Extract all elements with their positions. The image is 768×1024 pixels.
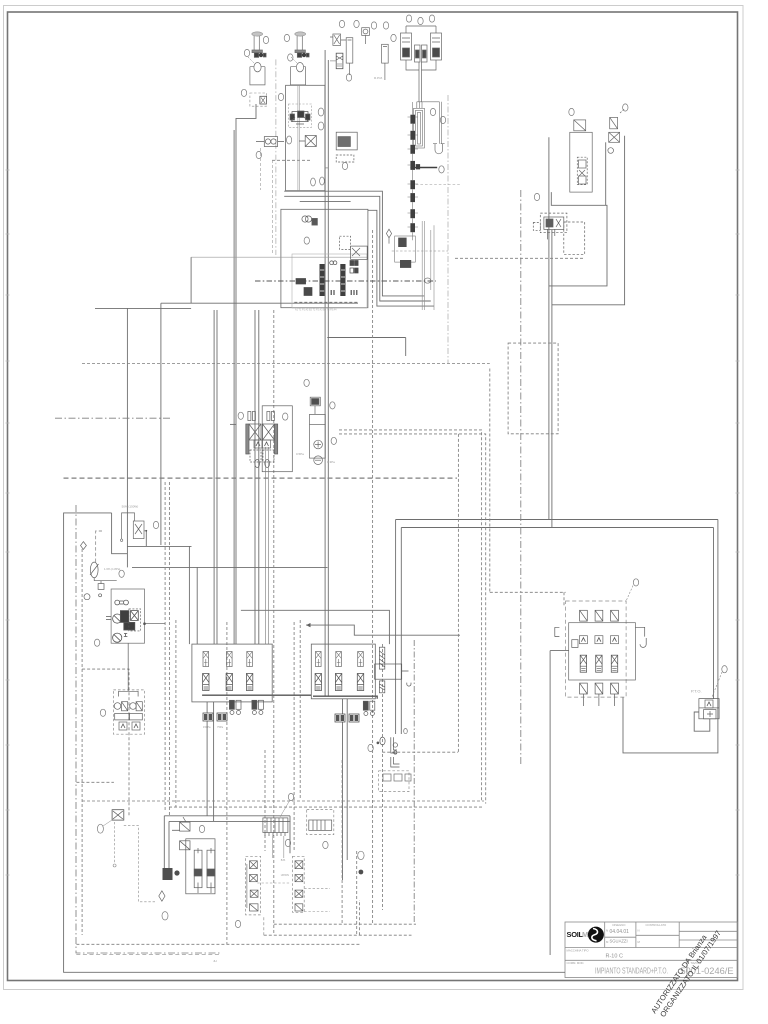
manifold M1 inner box [292,254,367,308]
filter FL1 [256,137,284,147]
wire arrow mid [327,338,405,357]
svg-text:IMPIANTO STANDARD+P.T.O.: IMPIANTO STANDARD+P.T.O. [595,966,668,976]
svg-text:04.04.01: 04.04.01 [610,929,630,935]
cluster F U-tube [433,144,445,154]
cluster G filter unit [570,120,592,192]
manifold M1 small glyphs [296,261,358,296]
balloon MB1 [288,793,293,800]
valve BL1 [180,817,190,831]
balloons LP1 [238,412,243,419]
small motor box RM1 [533,213,584,254]
wire mid bus y546 [127,545,191,547]
wire dashed right pair x481 [339,430,486,804]
wire manifold right bus4 [368,210,434,306]
wire bank drop x189 [188,546,190,644]
balloon callouts top E [391,15,435,42]
balloon RM1 [534,193,539,200]
manifold M1 spool tower 2 [340,264,345,296]
wire dashed bus y418 [55,417,171,419]
wire dashed bus y801 [82,800,484,802]
wire dashed box right tall [508,343,558,434]
dashed verticals pump area [275,59,277,255]
right bank dashed box RB [566,601,627,697]
wire dashed bus y807 [169,806,484,808]
valve cluster inside box [289,104,312,127]
wire V x395 [395,520,397,735]
RB col3 [611,610,619,706]
SOILMEC logotype [567,930,599,939]
wire right bank feed [550,650,569,652]
dashed vertical x260 [259,148,261,190]
balloon F bus [439,166,444,173]
svg-text:A1 T1 P1 A2 B2 T2 P2 A3 B3 T3: A1 T1 P1 A2 B2 T2 P2 A3 B3 T3 P3 A4 [295,309,337,312]
title block outline [565,922,738,978]
cluster F coil box [414,102,442,148]
wire H1 y519 [396,519,718,521]
left bank bottom valves [203,713,227,729]
balloon BL1 [199,825,204,832]
wire dashed x226 [226,622,228,944]
tank T2 tall [374,44,388,80]
balloon G [569,108,574,115]
wire center verticals to right bank [325,50,328,696]
svg-text:UP/DN: UP/DN [281,873,289,877]
wire dashed SV1 drop [114,822,116,863]
wire dashed x384 [382,644,384,910]
cluster F dashed link [416,184,460,186]
wire dashed left vertical x82 [81,549,83,935]
manifold M1 bottom dashed [294,301,358,303]
wire manifold right bus2 [284,196,431,301]
dashdot vertical x448 [447,95,449,363]
node SV1 drop end [113,864,116,867]
manifold box M1 [281,209,368,307]
leader RB [626,586,633,602]
right bank col3 [357,652,363,691]
wire left stub [230,423,236,425]
balloon MP1 [94,639,99,646]
cluster F lower box w/ blobs [392,221,448,310]
wire pto loop1 [623,520,718,753]
svg-text:P.T.O.: P.T.O. [691,688,702,693]
bank bottom valves mid [335,714,359,722]
wire bank arrow [306,625,460,635]
wire left tank return [64,513,565,972]
wire x160 drop [160,303,162,545]
svg-text:JH: JH [213,959,217,963]
balloon LC1 [100,709,105,716]
left bank footer bus [202,694,311,696]
wire MP1 to LC1 [127,643,129,691]
wire dashed x300 [299,620,301,800]
balloon pto [722,666,727,673]
wire dashed left vertical x76 [76,505,220,953]
manifold M1 right insert [340,236,368,259]
left bank col3 [246,652,252,691]
wire dashed bus y363 [82,363,490,365]
dashed vertical x272 [272,160,274,255]
balloon VP1 [119,570,124,577]
wire V x713 [713,528,715,699]
wire dashed SV1 route [124,826,156,902]
wire dashed y160 [272,159,312,161]
cluster F bus [410,167,437,169]
component CL2 right of banks [377,737,400,767]
wire V x401 [400,528,402,735]
wire dashed x169 [168,482,170,816]
balloon VC1 [235,920,240,927]
svg-text:R.P.M.: R.P.M. [374,76,383,80]
accumulator cluster E [401,26,442,102]
pump P1 group [248,32,266,85]
RB col1 [579,610,587,706]
cluster H gauge unit [608,109,625,154]
right bank solid box [569,623,636,680]
wire box right link [325,167,328,169]
wire y303 [161,302,358,304]
svg-text:75Pa: 75Pa [217,725,224,729]
balloon H [623,104,628,111]
diagonal authorization stamp [649,924,723,1021]
left bank col1 [203,652,209,691]
junction blob JC [359,870,364,875]
manifold block MB2 [307,810,334,835]
wire right U [549,192,607,286]
wire right H col2 [605,142,607,205]
wire bottomleft link [172,829,180,831]
wire H2 y527 [401,527,713,529]
main pump cluster MP1 [106,589,165,643]
node CK1 out [145,530,147,532]
svg-text:150Pa: 150Pa [203,725,211,729]
ellipse BL [162,912,168,920]
balloons top-left area [241,20,445,244]
svg-text:0.3Pa: 0.3Pa [327,460,335,464]
svg-text:1.6% (1.8Pa): 1.6% (1.8Pa) [104,567,120,571]
wire dashed x372 [372,230,374,924]
wire dashdot x520 [520,190,522,765]
wire dashed x342 [341,760,343,924]
wire bank feed bus [241,610,390,644]
wire dashdot x414 [413,640,415,924]
valve V1 under pump1 [250,93,267,106]
wire dashed x356 [356,851,358,935]
wire manifold right bus1 [284,191,424,296]
right bank box B2 [311,644,375,699]
wire VC1 corner dash [263,916,265,935]
svg-text:0.5Pa: 0.5Pa [296,452,304,456]
valve V4 [299,136,316,147]
valve cluster V5 [336,132,357,162]
manifold M1 dashdot bus [255,280,436,282]
wire y257 to manifold [190,257,192,303]
bottom staggered dashed line 3 [76,954,219,956]
RB col2 [595,610,603,706]
title block field texts [606,929,630,960]
svg-text:M: M [638,940,641,944]
cluster F valve chain [408,102,419,240]
pump P2 group [291,32,310,85]
wire bank drop x197 [196,567,198,644]
wire dashed x273 [273,310,275,935]
cluster F bus blob [416,164,420,169]
left bank col2 [226,652,232,691]
left bank lower glyphs [229,700,263,714]
wire dashed bus y478 [64,477,457,479]
balloon VC2 top [285,839,290,846]
wire right G down [548,137,550,519]
pentagon arrow PA1 [81,542,87,550]
svg-text:N: N [638,929,640,933]
svg-text:SGUAZZI: SGUAZZI [610,939,628,944]
check valve CK1 [120,505,144,542]
balloon CL2 [368,744,373,751]
wire right H col [552,136,625,305]
wire dashed bottom stagger2 [76,943,359,945]
tank assembly TA1 [296,397,335,464]
right bank footer bus [313,696,377,699]
balloons TA1 [304,379,309,386]
manifold M1 spool tower 1 [320,264,325,296]
leader pto [712,672,722,697]
wire right bank tails [343,699,348,880]
logo roundel [588,927,604,943]
left valve pair block LP1 [246,406,293,644]
wire dashed y781 [76,781,114,783]
balloon MB2 [323,841,328,848]
wire dashed bottom stagger1 [264,900,412,935]
RB right hook [635,627,646,647]
balloon right of chains [358,851,364,859]
wire dashed x265b [264,750,266,851]
small cluster SC1 [363,701,375,715]
pump small P3 [362,28,370,44]
wire dashed x175 [175,620,177,807]
circle pair in M1 [302,216,318,225]
big box under pump2 [286,85,325,190]
RB left small comp [555,627,578,647]
svg-text:SOIL: SOIL [567,930,584,939]
balloon SV1 [97,824,103,833]
wire pump1 drop [236,104,256,644]
wire mid bus y567 [132,566,328,568]
wire manifold right bus3 [300,200,351,202]
wire x111 drop [112,513,128,554]
wire dashed y924 [274,923,416,925]
wire dashed x294 [293,622,295,851]
valve BL2 [180,841,190,850]
frame tick marks [6,170,740,875]
wire dashed y258 [455,257,585,259]
balloons inside box [287,108,325,186]
wire right big vertical [549,651,551,955]
valve V2 top-mid w/ spring [330,34,346,45]
right bank col2 [335,652,341,691]
junction blob BL [163,868,173,880]
left bank box B1 [192,644,272,702]
manifold M1 top line [191,256,367,258]
arrowhead bank arrow [306,623,311,627]
svg-text:R-10 C: R-10 C [606,953,623,959]
tank T1 [346,38,353,75]
wire dashed left cluster drop [82,669,129,816]
wire second left drop [233,130,235,644]
wire left bank tails [164,702,290,868]
pump2 shaft lines [298,85,300,190]
manifold block MB1 [263,818,288,836]
svg-text:50% (150W): 50% (150W) [122,505,139,509]
valve chain VC2 [281,856,330,912]
pentagon arrow BL [159,891,165,901]
valve V3 solid square [330,53,343,68]
wire dashed x458 [457,434,459,752]
svg-text:N: N [606,929,608,933]
leader SV1 [103,820,112,826]
leader MB1 [280,800,290,817]
wire right G down2 [551,230,553,528]
wire dashed pentagon L [96,531,102,562]
wire dashed right link [490,369,566,606]
pto box [699,699,719,719]
wire x146 drop [145,531,147,547]
single valve SV1 [112,810,124,820]
title block small labels [567,923,702,965]
svg-text:B.B.: B.B. [281,858,286,862]
svg-text:MACCHINA TIPO: MACCHINA TIPO [567,949,590,953]
svg-text:COMM. MOD.: COMM. MOD. [567,961,585,965]
arrow marker F [386,229,391,243]
wire y308 [95,307,191,309]
left pair cluster LC1 [113,690,144,734]
wire x214 pair [214,310,217,644]
wire MB1 drops [273,836,284,858]
valve chain VC1 [246,856,290,915]
wire center verticals to left bank [255,310,259,644]
svg-text:CONTROLLATO: CONTROLLATO [646,923,668,927]
accumulator cylinders BL3 [186,839,215,894]
balloon RB [633,579,638,586]
wire dashed y752 [382,751,458,753]
svg-text:DISEGNO: DISEGNO [613,923,627,927]
balloon CK1 [153,521,158,528]
variable pump VP1 [84,562,120,600]
wire pto loop2 [694,712,710,731]
wire x127 drop [126,308,128,567]
wire dashed x165 [164,482,166,810]
right bank col1 [315,652,321,691]
cluster top right CT [379,729,411,792]
right bank hatched col [375,647,411,693]
